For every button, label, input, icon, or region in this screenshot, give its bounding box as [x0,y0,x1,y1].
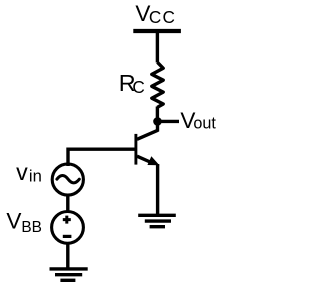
wire rail to resistor [156,31,159,63]
node vout junction dot [153,117,162,126]
DC source VBB [52,212,84,244]
wire vout stub [158,120,180,123]
svg-text:C: C [132,77,144,97]
svg-text:in: in [29,166,42,185]
svg-text:v: v [16,159,28,185]
resistor RC [152,62,163,107]
svg-text:CC: CC [149,7,176,27]
ground (VBB) [50,269,88,280]
wire VBB to ground [66,242,69,269]
wire resistor to node [156,107,159,124]
wire base (from source corner to transistor base) [68,149,135,166]
ground (emitter) [138,215,176,226]
transistor Q1 [136,119,159,215]
power rail VCC [133,29,181,33]
svg-text:V: V [6,209,21,234]
wire between sources [66,194,69,212]
svg-text:BB: BB [21,219,42,236]
AC source vin [52,164,83,195]
svg-text:out: out [193,115,216,133]
